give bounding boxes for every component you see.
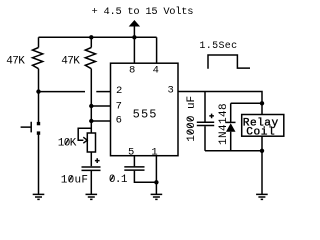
capacitor C3 1000uF plates (197, 122, 214, 125)
svg-text:Coil: Coil (246, 127, 275, 139)
switch S1 pushbutton actuator (21, 122, 32, 133)
wire relay bottom lead (261, 136, 263, 151)
svg-text:10uF: 10uF (61, 174, 88, 186)
svg-text:7: 7 (116, 100, 122, 112)
potentiometer VR1 10K body (87, 133, 95, 152)
svg-text:1N4148: 1N4148 (218, 103, 230, 145)
svg-text:6: 6 (116, 115, 122, 127)
svg-text:47K: 47K (6, 56, 25, 68)
switch S1 lower contact (37, 131, 40, 134)
svg-text:1: 1 (151, 147, 157, 159)
resistor R1 47K top lead (38, 37, 40, 47)
wire C2 to pin1 net (134, 171, 156, 183)
wire relay net to ground (261, 151, 263, 194)
label C1 zero slash (69, 176, 72, 182)
resistor R2 47K top lead (90, 37, 92, 47)
svg-text:5: 5 (128, 147, 134, 159)
wire top supply rail (39, 36, 157, 38)
power arrow head (129, 20, 140, 27)
wire pin 3 output net (178, 92, 262, 104)
svg-text:47K: 47K (61, 56, 80, 68)
wire C3 bottom lead (204, 126, 206, 151)
svg-text:0.1: 0.1 (109, 174, 128, 186)
capacitor C3 plus polarity (209, 114, 214, 119)
relay coil K1 body (242, 115, 284, 137)
label VR1 zero slash (65, 139, 68, 145)
svg-text:+ 4.5 to 15 Volts: + 4.5 to 15 Volts (92, 6, 194, 18)
svg-text:4: 4 (153, 65, 159, 77)
switch S1 upper contact (37, 122, 40, 125)
junction node pin7 (89, 104, 93, 108)
resistor R1 47K body (33, 48, 43, 69)
wire D1 bottom lead (230, 132, 232, 151)
wire pin 1 to ground (155, 156, 157, 194)
label C3 value 1000 uF (rotated) (186, 96, 198, 142)
wire C1 to ground (90, 171, 92, 194)
wire bottom right rail (205, 150, 262, 152)
wire pin 7 stub (91, 105, 110, 107)
wire pin 4 lead (156, 37, 158, 63)
junction node rail-pin8 (132, 35, 136, 39)
svg-text:2: 2 (116, 85, 122, 97)
wire R2 bottom lead to pot (90, 69, 92, 133)
diode D1 cathode bar (226, 121, 236, 123)
wire switch to ground (38, 135, 40, 194)
junction node relay bottom rail (260, 149, 264, 153)
label D1 value 1N4148 (rotated) (218, 103, 230, 145)
capacitor C2 0.1 plates (124, 167, 144, 170)
svg-text:555: 555 (133, 108, 158, 122)
svg-text:1.5Sec: 1.5Sec (199, 41, 237, 52)
wire pot bottom lead (90, 152, 92, 166)
waveform pulse 1.5Sec (208, 55, 250, 69)
junction node R1-switch-pin2 (36, 89, 40, 93)
ground symbol G2 (86, 194, 98, 199)
capacitor C1 plus polarity (95, 158, 100, 163)
diode D1 1N4148 top lead (230, 103, 232, 122)
wire pin 5 lead (133, 156, 135, 167)
potentiometer VR1 wiper connection (78, 128, 91, 140)
potentiometer wiper arrowhead (83, 137, 87, 143)
ground symbol G4 (256, 194, 268, 199)
junction node diode-relay top (260, 101, 264, 105)
wire R1 bottom lead (38, 69, 40, 122)
diode D1 triangle (226, 123, 236, 131)
ground symbol G1 (33, 194, 45, 199)
resistor R2 47K body (85, 48, 95, 69)
junction node C2-pin1 (154, 180, 158, 184)
label C2 zero slash (110, 175, 113, 181)
junction node rail-R2 (89, 35, 93, 39)
wire node pin2 net left segment (39, 91, 86, 93)
junction node pin6 (89, 119, 93, 123)
wire node diode branch (231, 103, 262, 114)
svg-text:3: 3 (167, 85, 173, 97)
svg-text:8: 8 (129, 65, 135, 77)
op-amp U1 555 timer body (111, 63, 179, 156)
wire node pin2 net right segment (crossover gap) (96, 91, 110, 93)
ground symbol G3 (151, 194, 163, 199)
capacitor C3 1000uF top lead (204, 92, 206, 122)
svg-text:10K: 10K (58, 138, 77, 150)
wire power arrow stem pin 8 (133, 26, 135, 63)
wire pin 6 stub (91, 120, 110, 122)
svg-text:1000 uF: 1000 uF (186, 96, 198, 142)
capacitor C1 10uF plates (82, 167, 101, 170)
